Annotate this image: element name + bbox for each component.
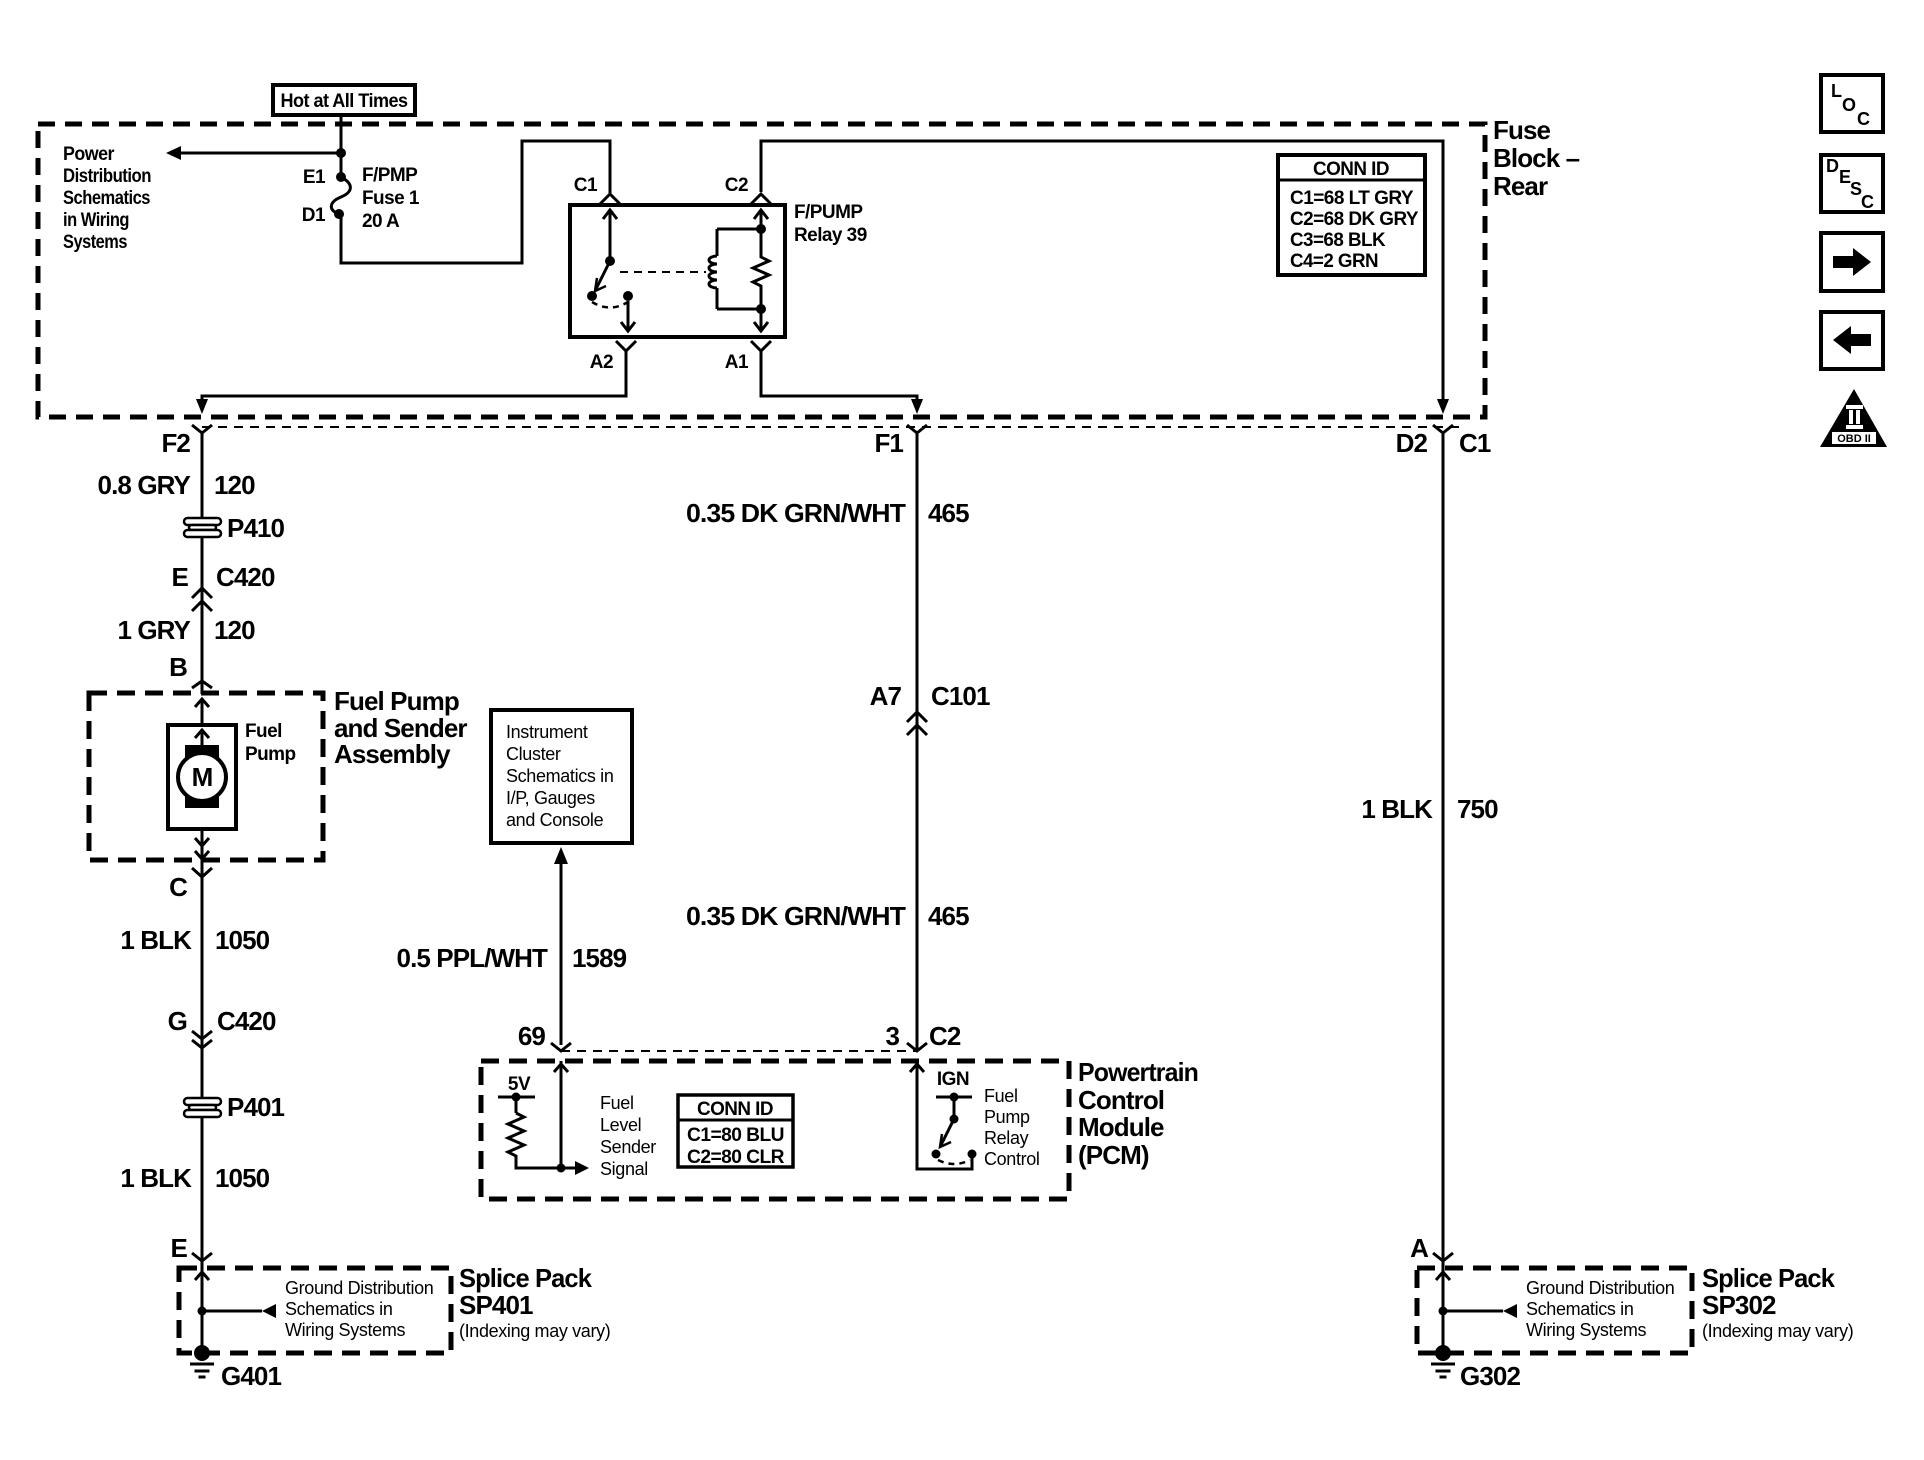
node splice junction SP401 (198, 1307, 207, 1316)
svg-text:C2: C2 (929, 1021, 961, 1051)
svg-text:1 BLK: 1 BLK (1361, 794, 1433, 824)
fuel pump motor (168, 721, 296, 829)
wire pin 69 into PCM (554, 1061, 568, 1168)
label 1 BLK 1050 (120, 925, 269, 955)
svg-text:O: O (1842, 95, 1856, 115)
label Fuse Block - Rear (1493, 115, 1580, 201)
node A7 C101 (870, 681, 990, 735)
svg-text:120: 120 (214, 470, 255, 500)
svg-text:0.8 GRY: 0.8 GRY (98, 470, 191, 500)
pcm fuel pump relay control driver (932, 1069, 977, 1164)
node G C420 (168, 1006, 276, 1048)
svg-text:465: 465 (928, 901, 969, 931)
svg-text:5V: 5V (508, 1074, 531, 1095)
node E C420 (172, 562, 275, 611)
svg-text:Splice Pack: Splice Pack (1702, 1263, 1835, 1293)
label 1 BLK 750 (1361, 794, 1498, 824)
label Powertrain Control Module PCM (1078, 1057, 1198, 1170)
svg-text:Wiring Systems: Wiring Systems (285, 1320, 405, 1340)
label 1 GRY 120 (117, 615, 255, 645)
wire fuel level sender signal arrow (561, 1161, 589, 1175)
svg-text:465: 465 (928, 498, 969, 528)
wire into SP302 (1436, 1272, 1450, 1280)
svg-text:C2=68 DK GRY: C2=68 DK GRY (1290, 209, 1419, 230)
svg-text:E1: E1 (303, 167, 326, 188)
svg-text:Assembly: Assembly (334, 739, 451, 769)
svg-text:C2=80 CLR: C2=80 CLR (687, 1147, 785, 1168)
wire relay A1 to F1 (761, 351, 923, 414)
node F2 (161, 425, 212, 458)
node B (169, 652, 212, 688)
label 0.8 GRY 120 (98, 470, 256, 500)
wire SP401 stem (201, 1261, 204, 1353)
svg-text:20 A: 20 A (362, 211, 400, 232)
svg-text:CONN ID: CONN ID (1313, 159, 1389, 180)
svg-text:Fuel: Fuel (245, 721, 282, 742)
splice pack SP302 dashed box (1417, 1268, 1692, 1353)
svg-text:Systems: Systems (63, 232, 127, 253)
svg-text:Pump: Pump (984, 1107, 1030, 1127)
wire F1 down to PCM pin 3 (916, 433, 919, 1051)
label 1 BLK 1050 lower (120, 1163, 269, 1193)
svg-text:Control: Control (1078, 1085, 1164, 1115)
svg-text:C: C (1857, 109, 1870, 129)
node C (169, 868, 212, 902)
label 0.5 PPL/WHT 1589 (397, 943, 627, 973)
wire D2 C1 down right side (1442, 433, 1445, 1262)
wire fuel level sender signal to instrument cluster (554, 847, 568, 1045)
svg-text:1 GRY: 1 GRY (117, 615, 190, 645)
svg-text:Control: Control (984, 1149, 1040, 1169)
svg-text:SP401: SP401 (459, 1290, 533, 1320)
icon back arrow (1821, 312, 1883, 369)
svg-text:A: A (1410, 1233, 1429, 1263)
svg-text:D2: D2 (1396, 428, 1428, 458)
svg-text:IGN: IGN (937, 1069, 969, 1090)
node A2 connector fork (590, 341, 636, 373)
pcm 5V supply (498, 1074, 535, 1113)
svg-text:Rear: Rear (1493, 171, 1548, 201)
wire to ground distribution SP401 (202, 1304, 276, 1318)
svg-text:C1: C1 (574, 175, 598, 196)
svg-text:C101: C101 (931, 681, 990, 711)
note fuel level sender signal (600, 1093, 656, 1179)
wire battery feed from hot box (340, 115, 343, 178)
wire into fuel pump (195, 699, 209, 725)
wire relay A2 to F2 (196, 351, 626, 414)
svg-text:G401: G401 (221, 1361, 281, 1391)
pcm sender pull-up resistor (508, 1113, 561, 1168)
svg-text:M: M (192, 762, 213, 792)
ground G302 (1431, 1345, 1520, 1391)
wire pin 3 into PCM (910, 1061, 972, 1169)
connector boundary thin dashed line (202, 426, 1464, 428)
wire D2 exit arrowhead (1437, 399, 1449, 414)
wire to ground distribution SP302 (1443, 1304, 1517, 1318)
svg-text:C4=2 GRN: C4=2 GRN (1290, 251, 1378, 272)
svg-text:Ground Distribution: Ground Distribution (1526, 1278, 1674, 1298)
note ground distribution SP401 (285, 1278, 433, 1340)
svg-text:F/PUMP: F/PUMP (794, 202, 863, 223)
svg-text:E: E (172, 562, 189, 592)
fuel pump and sender assembly dashed box (89, 693, 323, 860)
splice P410 (184, 513, 285, 543)
svg-text:F2: F2 (161, 428, 190, 458)
svg-text:0.35 DK GRN/WHT: 0.35 DK GRN/WHT (686, 901, 906, 931)
svg-text:E: E (171, 1233, 188, 1263)
svg-text:Powertrain: Powertrain (1078, 1057, 1198, 1087)
svg-text:(PCM): (PCM) (1078, 1140, 1149, 1170)
svg-text:Level: Level (600, 1115, 641, 1135)
node junction at feed (336, 148, 346, 158)
svg-text:Fuel Pump: Fuel Pump (334, 686, 459, 716)
relay switch common arm (587, 210, 635, 331)
node F1 (874, 425, 927, 458)
svg-text:69: 69 (518, 1021, 546, 1051)
fuse block rear dashed outline (38, 124, 1485, 417)
wire into SP401 (195, 1272, 209, 1280)
wire fuse output to relay C1 (341, 141, 610, 263)
label Splice Pack SP302 (1702, 1263, 1853, 1341)
svg-text:C3=68 BLK: C3=68 BLK (1290, 230, 1386, 251)
relay coil suppression resistor (753, 210, 769, 331)
wire arrow to power distribution (166, 146, 341, 160)
wire relay C2 to fuse block exit D2 (761, 141, 1443, 399)
svg-text:Splice Pack: Splice Pack (459, 1263, 592, 1293)
icon DESC (1821, 155, 1883, 212)
svg-text:C: C (1861, 192, 1874, 212)
svg-text:P410: P410 (227, 513, 285, 543)
svg-text:L: L (1831, 81, 1842, 101)
svg-text:Sender: Sender (600, 1137, 656, 1157)
svg-text:Schematics: Schematics (63, 188, 150, 209)
svg-text:CONN ID: CONN ID (697, 1099, 773, 1120)
svg-text:OBD II: OBD II (1837, 433, 1871, 445)
svg-text:1589: 1589 (572, 943, 627, 973)
splice pack SP401 dashed box (179, 1268, 451, 1353)
svg-text:C420: C420 (217, 1006, 276, 1036)
svg-text:Fuse: Fuse (1493, 115, 1551, 145)
relay internal dashed link (620, 271, 706, 273)
node sender signal junction (557, 1164, 566, 1173)
powertrain control module dashed box (481, 1061, 1069, 1199)
svg-text:C1=68 LT GRY: C1=68 LT GRY (1290, 188, 1414, 209)
svg-text:Schematics in: Schematics in (285, 1299, 393, 1319)
wire out of fuel pump (195, 829, 209, 1262)
node A (1410, 1233, 1453, 1263)
svg-text:Instrument: Instrument (506, 722, 588, 742)
svg-text:0.35 DK GRN/WHT: 0.35 DK GRN/WHT (686, 498, 906, 528)
svg-text:(Indexing may vary): (Indexing may vary) (459, 1321, 610, 1341)
svg-text:Block –: Block – (1493, 143, 1580, 173)
svg-text:C420: C420 (216, 562, 275, 592)
svg-text:SP302: SP302 (1702, 1290, 1776, 1320)
svg-text:G302: G302 (1460, 1361, 1520, 1391)
wire SP302 stem (1442, 1261, 1445, 1353)
relay F/PUMP Relay 39 (570, 202, 867, 337)
svg-text:Relay 39: Relay 39 (794, 225, 867, 246)
label Splice Pack SP401 (459, 1263, 610, 1341)
svg-text:Ground Distribution: Ground Distribution (285, 1278, 433, 1298)
icon forward arrow (1821, 233, 1883, 291)
conn id table PCM (678, 1095, 793, 1168)
fuse F/PMP Fuse 1 20 A (302, 165, 420, 232)
svg-text:3: 3 (885, 1021, 899, 1051)
svg-text:Fuse 1: Fuse 1 (362, 188, 420, 209)
label Fuel Pump and Sender Assembly (334, 686, 467, 769)
svg-text:1050: 1050 (215, 925, 270, 955)
node splice junction SP302 (1439, 1307, 1448, 1316)
svg-text:B: B (169, 652, 187, 682)
svg-text:C: C (169, 872, 188, 902)
svg-text:Fuel: Fuel (600, 1093, 634, 1113)
svg-text:120: 120 (214, 615, 255, 645)
svg-text:Wiring Systems: Wiring Systems (1526, 1320, 1646, 1340)
svg-text:Distribution: Distribution (63, 166, 151, 187)
svg-text:A7: A7 (870, 681, 902, 711)
svg-text:F1: F1 (874, 428, 903, 458)
svg-text:D1: D1 (302, 205, 326, 226)
svg-text:Signal: Signal (600, 1159, 648, 1179)
conn id table fuse block (1278, 155, 1425, 275)
svg-text:1 BLK: 1 BLK (120, 925, 192, 955)
label 0.35 DK GRN/WHT 465 lower (686, 901, 969, 931)
svg-text:Module: Module (1078, 1112, 1164, 1142)
svg-text:A2: A2 (590, 352, 613, 373)
svg-text:Cluster: Cluster (506, 744, 561, 764)
label 0.35 DK GRN/WHT 465 upper (686, 498, 969, 528)
ground G401 (190, 1345, 281, 1391)
svg-text:C1: C1 (1459, 428, 1491, 458)
svg-text:Hot at All Times: Hot at All Times (281, 91, 408, 112)
icon LOC (1821, 75, 1883, 132)
node D2 C1 (1396, 425, 1491, 458)
note Power Distribution Schematics in Wiring Systems (63, 144, 151, 253)
svg-text:and Console: and Console (506, 810, 604, 830)
svg-text:Power: Power (63, 144, 115, 165)
svg-text:Schematics in: Schematics in (1526, 1299, 1634, 1319)
svg-text:I/P, Gauges: I/P, Gauges (506, 788, 595, 808)
svg-text:0.5 PPL/WHT: 0.5 PPL/WHT (397, 943, 548, 973)
svg-text:G: G (168, 1006, 187, 1036)
svg-text:750: 750 (1457, 794, 1498, 824)
node C2 connector fork (725, 175, 771, 204)
power label box Hot at All Times (273, 85, 415, 115)
wire F2 down to fuel pump (201, 433, 204, 694)
svg-text:C1=80 BLU: C1=80 BLU (687, 1125, 784, 1146)
svg-text:C2: C2 (725, 175, 748, 196)
splice P401 (184, 1092, 285, 1122)
svg-text:in Wiring: in Wiring (63, 210, 129, 231)
svg-text:F/PMP: F/PMP (362, 165, 418, 186)
pcm connector boundary thin dashed line (561, 1050, 917, 1052)
svg-text:Schematics in: Schematics in (506, 766, 614, 786)
svg-text:P401: P401 (227, 1092, 285, 1122)
svg-text:Fuel: Fuel (984, 1086, 1018, 1106)
node 69 (518, 1021, 571, 1051)
relay coil (709, 224, 766, 314)
svg-text:1050: 1050 (215, 1163, 270, 1193)
svg-text:D: D (1826, 156, 1839, 176)
svg-text:1 BLK: 1 BLK (120, 1163, 192, 1193)
icon OBD II triangle (1820, 389, 1887, 447)
svg-text:A1: A1 (725, 352, 749, 373)
node E lower (171, 1233, 212, 1263)
note fuel pump relay control (984, 1086, 1040, 1169)
node 3 C2 (885, 1021, 960, 1051)
node C1 connector fork (574, 175, 620, 204)
node A1 connector fork (725, 341, 771, 373)
svg-text:(Indexing may vary): (Indexing may vary) (1702, 1321, 1853, 1341)
instrument cluster note box (491, 710, 632, 843)
svg-text:Pump: Pump (245, 744, 296, 765)
svg-text:Relay: Relay (984, 1128, 1029, 1148)
note ground distribution SP302 (1526, 1278, 1674, 1340)
